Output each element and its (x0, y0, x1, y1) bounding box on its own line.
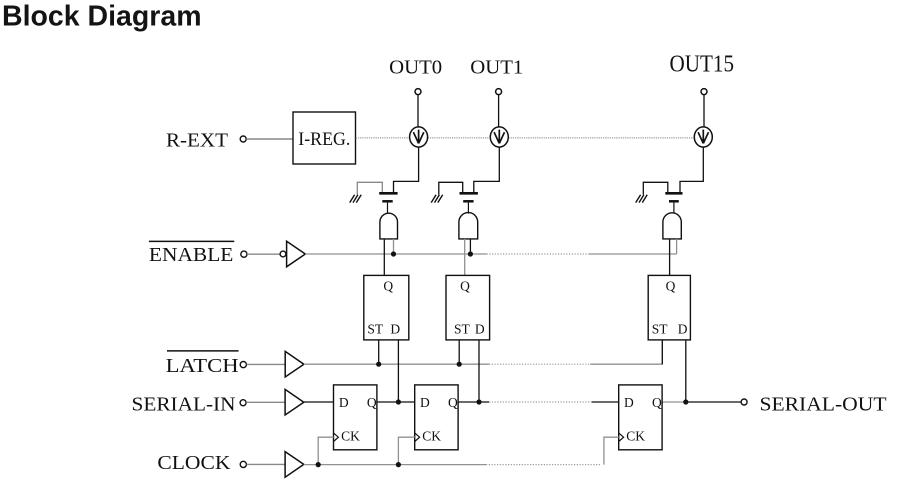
svg-text:Q: Q (460, 279, 470, 294)
wire OUT0 lead (417, 95, 419, 128)
buffer LATCH B2 (285, 351, 304, 377)
svg-text:OUT0: OUT0 (389, 57, 442, 79)
wire CLOCK net to FF1 CK (398, 437, 414, 464)
svg-text:D: D (390, 322, 400, 337)
svg-text:D: D (678, 322, 688, 337)
wire CS1 to Q1 drain (474, 147, 500, 192)
wire AND15 output to Q15 gate (673, 203, 675, 214)
wire R-EXT to I-REG (246, 138, 293, 140)
dotted reference net CS0 to CS1 (428, 137, 490, 139)
svg-text:LATCH: LATCH (166, 355, 239, 377)
svg-text:CK: CK (341, 429, 360, 444)
wire ENABLE net to AND0 input (393, 239, 395, 254)
flip-flop FF0 clock input triangle (334, 433, 339, 442)
wire LATCH net to latch L15 ST (590, 340, 662, 364)
current source CS1 (490, 127, 508, 147)
wire latch L0 Q to AND0 input (383, 239, 385, 276)
junction serial net at L1 D (476, 399, 481, 404)
wire Q1 source to ground (439, 182, 463, 194)
wire CS0 to Q0 drain (394, 147, 419, 192)
terminal SERIAL-OUT (741, 399, 747, 405)
svg-text:ENABLE: ENABLE (149, 244, 234, 266)
dotted LATCH net segment (489, 363, 590, 365)
wire CLOCK terminal to buffer (247, 463, 286, 465)
terminal OUT15 (701, 89, 707, 95)
svg-text:OUT1: OUT1 (470, 57, 523, 79)
terminal OUT1 (496, 89, 502, 95)
wire serial net FF15 Q to junction (661, 401, 686, 403)
svg-text:Q: Q (666, 279, 676, 294)
wire serial net FF0 Q to FF1 D (377, 401, 415, 403)
terminal SERIAL-IN (240, 400, 246, 406)
AND gate A1 (459, 213, 478, 239)
wire latch L15 Q to AND15 input (669, 239, 671, 276)
wire ENABLE terminal to buffer (247, 253, 279, 255)
transistor Q0 (379, 193, 397, 201)
AND gate A15 (663, 213, 681, 239)
svg-text:ST: ST (454, 322, 471, 337)
svg-text:SERIAL-IN: SERIAL-IN (132, 394, 236, 416)
svg-text:D: D (475, 322, 485, 337)
ground GND1 (431, 195, 443, 203)
svg-text:CK: CK (422, 429, 441, 444)
svg-text:D: D (420, 395, 430, 410)
flip-flop FF15 (619, 385, 662, 450)
wire OUT1 lead (498, 95, 500, 128)
transistor Q15 (665, 193, 682, 201)
terminal OUT0 (415, 89, 421, 95)
buffer SERIAL-IN B3 (285, 389, 304, 415)
wire CLOCK net to FF15 CK (604, 437, 619, 464)
dotted ENABLE net segment (487, 253, 590, 255)
svg-text:D: D (624, 395, 634, 410)
wire latch L0 ST to LATCH net (378, 340, 380, 364)
junction CLOCK net at FF0 (316, 462, 321, 467)
svg-text:CK: CK (626, 429, 645, 444)
wire ENABLE net to AND1 input (469, 239, 471, 254)
terminal ENABLE (241, 251, 247, 257)
current source CS0 (410, 127, 428, 147)
current source CS15 (694, 127, 712, 147)
wire SERIAL-IN terminal to buffer (246, 401, 285, 403)
svg-text:Q: Q (383, 279, 393, 294)
wire AND0 output to Q0 gate (387, 203, 389, 214)
dotted CLOCK net segment (486, 464, 601, 466)
flip-flop FF0 (334, 385, 377, 450)
svg-text:Block Diagram: Block Diagram (2, 1, 202, 33)
dotted reference net CS1 to CS15 (509, 137, 695, 139)
buffer ENABLE B1 (280, 251, 286, 257)
ground GND15 (636, 195, 648, 203)
wire latch L15 D to serial net (685, 340, 687, 402)
svg-text:ST: ST (367, 322, 384, 337)
flip-flop FF1 (415, 385, 458, 450)
junction LATCH net at L0 (376, 362, 381, 367)
junction CLOCK net at FF1 (396, 462, 401, 467)
junction ENABLE at A0 (391, 251, 396, 256)
wire serial net FF1 Q solid segment (458, 401, 489, 403)
wire ENABLE net to AND15 input (676, 239, 678, 254)
buffer CLOCK B4 (285, 452, 304, 478)
svg-text:SERIAL-OUT: SERIAL-OUT (760, 394, 887, 416)
svg-text:Q: Q (448, 395, 458, 410)
wire serial net junction to SERIAL-OUT (686, 401, 741, 403)
wire latch L1 ST to LATCH net (458, 340, 460, 364)
dotted reference net I-REG to CS0 (356, 137, 410, 139)
wire OUT15 lead (703, 95, 705, 128)
terminal CLOCK (240, 461, 246, 467)
svg-text:D: D (339, 395, 349, 410)
terminal LATCH (240, 362, 246, 368)
latch L0 (364, 275, 409, 340)
wire latch L1 D to serial net (478, 340, 480, 402)
wire LATCH net solid segment (304, 363, 489, 365)
wire CS15 to Q15 drain (680, 147, 703, 192)
wire serial net to FF15 D (592, 401, 619, 403)
terminal R-EXT (240, 136, 246, 142)
wire latch L15 ST to LATCH net (661, 340, 663, 364)
wire latch L0 D to serial net (397, 340, 399, 402)
svg-text:Q: Q (367, 395, 377, 410)
svg-text:R-EXT: R-EXT (166, 130, 228, 152)
block I-REG U1 (293, 112, 356, 164)
wire latch L1 Q to AND1 input (464, 239, 466, 276)
junction serial net at L15 D (683, 399, 688, 404)
svg-text:I-REG.: I-REG. (298, 130, 350, 150)
latch L15 (648, 275, 690, 340)
wire ENABLE net to A15 (590, 253, 677, 255)
wire CLOCK net to FF0 CK (318, 437, 333, 464)
wire CLOCK net solid segment (304, 464, 486, 466)
svg-text:ST: ST (652, 322, 669, 337)
svg-text:Q: Q (652, 395, 662, 410)
junction LATCH net at L1 (457, 362, 462, 367)
svg-text:OUT15: OUT15 (670, 51, 735, 77)
junction serial net at L0 D (396, 399, 401, 404)
AND gate A0 (380, 213, 398, 239)
svg-text:CLOCK: CLOCK (157, 452, 230, 474)
latch L1 (446, 275, 490, 340)
wire AND1 output to Q1 gate (467, 203, 469, 214)
wire Q15 source to ground (643, 182, 668, 194)
ENABLE overline (149, 240, 234, 242)
wire LATCH terminal to buffer (247, 363, 286, 365)
wire ENABLE net solid segment (305, 253, 486, 255)
transistor Q1 (460, 193, 478, 201)
wire Q0 source to ground (357, 182, 382, 194)
flip-flop FF15 clock input triangle (619, 433, 624, 442)
flip-flop FF1 clock input triangle (415, 433, 420, 442)
junction ENABLE at A1 (468, 251, 473, 256)
ground GND0 (350, 195, 362, 203)
LATCH overline (167, 350, 239, 352)
wire serial net buffer to FF0 D (304, 401, 334, 403)
dotted serial net segment (489, 401, 592, 403)
